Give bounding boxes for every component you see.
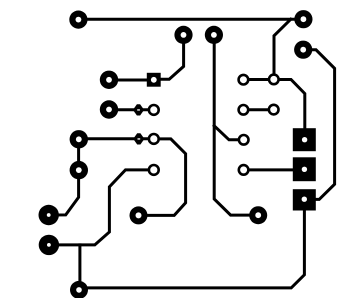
pad O2: [149, 134, 159, 144]
pad C: [100, 100, 118, 118]
wire pad C to diamond M1 and pad O1: [108, 108, 154, 111]
big filled pad G: [39, 235, 59, 255]
wire junction on G net down to pad H: [78, 245, 81, 290]
wire pad B to square S0: [108, 79, 148, 82]
wire branch from P2 vertical to pad R3L: [214, 126, 244, 140]
square pad S0: [147, 73, 161, 87]
pad B: [100, 71, 118, 89]
pad P4: [294, 41, 312, 59]
wire pad P2 long vertical to pad K2: [214, 34, 258, 215]
pad O1: [149, 105, 159, 115]
wire pad O2 down to pad K1: [139, 139, 186, 216]
pad E: [70, 161, 88, 179]
pad P2: [205, 26, 223, 44]
wire pad R4L to square S2: [244, 168, 294, 171]
square pad S3: [293, 189, 316, 210]
pad R1L: [239, 75, 249, 85]
pad R2L: [239, 105, 249, 115]
wire row1 pads R1L-R1R: [243, 78, 273, 81]
wire row2 pads R2L-R2R: [243, 108, 273, 111]
pad R3L: [239, 135, 249, 145]
pad R2R: [269, 105, 279, 115]
big filled pad F: [39, 205, 59, 225]
wire pad D,E down to big pad F: [49, 139, 79, 215]
pad D: [70, 130, 88, 148]
wire pad O3 down to big pad G: [49, 170, 154, 245]
pad R1R: [269, 75, 279, 85]
pad P3: [294, 10, 312, 28]
pad P1: [174, 26, 192, 44]
pad O3: [149, 165, 159, 175]
diamond pad M1: [133, 104, 144, 115]
wire top horizontal net A to P3: [78, 18, 303, 21]
diamond pad M2: [133, 133, 144, 144]
wire pad D to diamond M2 and pad O2: [79, 137, 154, 140]
wire R1R to square S1: [274, 80, 305, 130]
wire diagonal from top net down to pad R1R: [274, 19, 291, 79]
square pad S1: [293, 128, 316, 151]
wire pad P1 to square S0: [154, 34, 184, 79]
pad K2: [249, 206, 267, 224]
pad A: [69, 11, 87, 29]
wire pad P4 to square S3 right side: [303, 50, 334, 200]
pad R4L: [239, 165, 249, 175]
pad K1: [130, 206, 148, 224]
wire square S3 down and bottom horizontal to pad H: [79, 209, 304, 288]
pad H: [70, 281, 88, 298]
square pad S2: [293, 157, 316, 181]
